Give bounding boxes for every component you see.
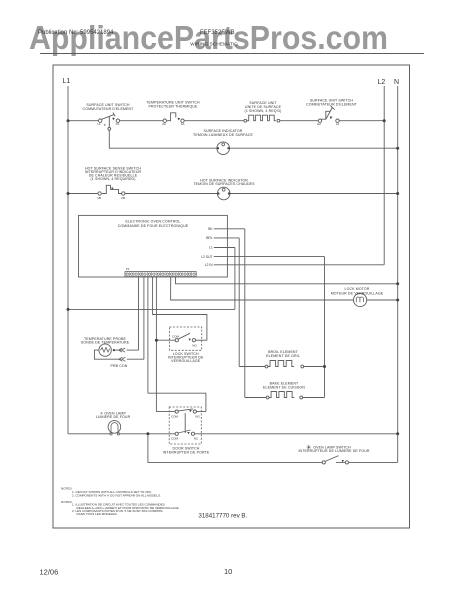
svg-text:L2: L2 xyxy=(336,122,340,126)
svg-text:MOTEUR DE VERROUILLAGE: MOTEUR DE VERROUILLAGE xyxy=(331,292,384,296)
svg-text:DANS TOUS LES MODELES.: DANS TOUS LES MODELES. xyxy=(77,512,118,516)
svg-text:L2: L2 xyxy=(378,79,386,86)
svg-text:TEMOIN DE SURFACES CHAUDES: TEMOIN DE SURFACES CHAUDES xyxy=(193,182,255,186)
svg-text:L1: L1 xyxy=(209,246,213,250)
svg-text:NOTES:: NOTES: xyxy=(61,500,72,504)
svg-text:1B: 1B xyxy=(97,196,101,200)
svg-text:L1: L1 xyxy=(63,78,71,85)
svg-text:L1: L1 xyxy=(97,122,101,126)
svg-text:WIRING SCHEMATIC: WIRING SCHEMATIC xyxy=(190,41,238,46)
svg-text:L2 OUT: L2 OUT xyxy=(201,255,212,259)
svg-text:ELEMENT DE CUISSON: ELEMENT DE CUISSON xyxy=(263,386,305,390)
svg-text:COMMUTATEUR D'ELEMENT: COMMUTATEUR D'ELEMENT xyxy=(306,103,358,107)
svg-text:P1: P1 xyxy=(126,267,130,271)
svg-text:2. COMPONENTS WITH ✳ DO NOT A: 2. COMPONENTS WITH ✳ DO NOT APPEAR ON AL… xyxy=(72,494,161,498)
svg-text:ELEMENT DE GRIL: ELEMENT DE GRIL xyxy=(266,354,300,358)
svg-text:COMMANDE DE FOUR ELECTRONIQUE: COMMANDE DE FOUR ELECTRONIQUE xyxy=(118,224,189,228)
svg-text:SONDE DE TEMPERATURE: SONDE DE TEMPERATURE xyxy=(81,340,130,344)
svg-text:NOTES:: NOTES: xyxy=(61,487,72,491)
svg-text:P1: P1 xyxy=(116,122,120,126)
svg-text:1A: 1A xyxy=(181,122,185,126)
svg-text:BRL: BRL xyxy=(206,236,212,240)
svg-text:LOCK MOTOR: LOCK MOTOR xyxy=(345,287,370,291)
svg-text:L2 IN: L2 IN xyxy=(205,263,213,267)
svg-text:PRB CON: PRB CON xyxy=(110,364,127,368)
svg-text:Publication No: 5995421894: Publication No: 5995421894 xyxy=(38,30,114,36)
svg-text:COM: COM xyxy=(171,415,179,419)
svg-text:VERROUILLAGE: VERROUILLAGE xyxy=(171,359,201,363)
svg-text:318417770 rev B.: 318417770 rev B. xyxy=(198,513,247,520)
svg-text:2A: 2A xyxy=(162,122,166,126)
svg-text:TEMOIN LUMINEUX DE SURFACE: TEMOIN LUMINEUX DE SURFACE xyxy=(193,133,253,137)
svg-text:NO: NO xyxy=(195,415,200,419)
svg-text:(1 SHOWN, 4 REQUIRED): (1 SHOWN, 4 REQUIRED) xyxy=(90,177,135,181)
svg-text:ELECTRONIC OVEN CONTROL: ELECTRONIC OVEN CONTROL xyxy=(126,220,181,224)
svg-text:COMMUTATEUR D'ELEMENT: COMMUTATEUR D'ELEMENT xyxy=(83,107,135,111)
svg-text:FEF352FWB: FEF352FWB xyxy=(200,30,235,36)
svg-text:PROTECTEUR THERMIQUE: PROTECTEUR THERMIQUE xyxy=(148,105,198,109)
svg-text:INTERRUPTER DE PORTE: INTERRUPTER DE PORTE xyxy=(163,451,210,455)
svg-text:✳: ✳ xyxy=(306,443,312,451)
svg-text:2B: 2B xyxy=(121,196,125,200)
svg-text:P: P xyxy=(104,123,106,127)
svg-text:COM: COM xyxy=(171,437,179,441)
svg-text:10: 10 xyxy=(224,567,232,576)
svg-text:AppliancePartsPros.com: AppliancePartsPros.com xyxy=(29,20,388,57)
svg-text:12/06: 12/06 xyxy=(40,568,59,577)
svg-text:(1 SHOWN, 4 REQ'D): (1 SHOWN, 4 REQ'D) xyxy=(245,109,282,113)
svg-text:NO: NO xyxy=(192,344,197,348)
svg-text:N: N xyxy=(394,79,399,86)
svg-text:H2: H2 xyxy=(317,122,321,126)
svg-text:COM: COM xyxy=(172,335,180,339)
svg-text:LUMIERE DE FOUR: LUMIERE DE FOUR xyxy=(96,415,131,419)
